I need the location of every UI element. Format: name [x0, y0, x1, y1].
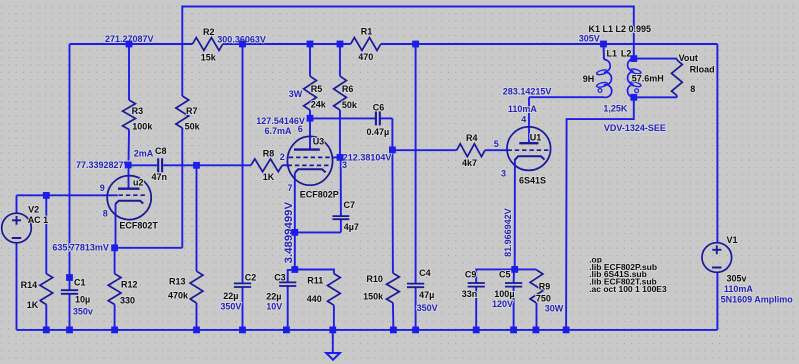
- wire R11 leads: [295, 270, 334, 330]
- svg-text:R14: R14: [21, 280, 38, 290]
- wire C2 branch: [242, 44, 244, 330]
- svg-text:2: 2: [280, 152, 285, 162]
- wire C7 node: [295, 157, 341, 232]
- label 3.4899499V (rotated): [283, 201, 295, 263]
- label 100k: [132, 121, 153, 131]
- svg-text:150k: 150k: [363, 292, 384, 302]
- svg-text:5: 5: [494, 139, 499, 149]
- node 305V rail-L1: [600, 41, 607, 48]
- svg-text:R12: R12: [121, 280, 138, 290]
- node rail-R3: [126, 41, 133, 48]
- directive .lib ECF802T: [589, 276, 657, 286]
- node L2 top: [630, 55, 637, 62]
- wire L1 top lead: [603, 44, 606, 60]
- label C3: [274, 272, 286, 282]
- resistor R6: [334, 76, 347, 110]
- svg-text:8: 8: [690, 84, 695, 94]
- svg-text:330: 330: [120, 295, 135, 305]
- node bus x513.6: [510, 327, 517, 334]
- svg-text:K1 L1 L2 0.995: K1 L1 L2 0.995: [589, 24, 652, 34]
- node rail-R5: [307, 41, 314, 48]
- svg-text:750: 750: [536, 294, 551, 304]
- wire C8 node: [129, 164, 197, 166]
- svg-text:47µ: 47µ: [419, 290, 434, 300]
- label 5N1609 Amplimo: [721, 295, 794, 305]
- label C1: [74, 278, 86, 288]
- wire C3 jog: [288, 270, 295, 330]
- wire R4 node: [392, 149, 507, 151]
- wire feedback top: [182, 7, 634, 248]
- svg-text:3: 3: [501, 169, 506, 179]
- capacitor C6: [376, 111, 380, 125]
- label 350V: [220, 302, 241, 312]
- label C2: [245, 272, 257, 282]
- label U1: [530, 133, 542, 143]
- svg-text:R7: R7: [186, 106, 198, 116]
- svg-text:6: 6: [298, 124, 303, 134]
- label 7: [288, 183, 293, 193]
- label u2: [133, 177, 144, 187]
- wire R10 leads: [392, 150, 393, 330]
- label 110mA: [508, 104, 538, 114]
- svg-text:C2: C2: [245, 272, 257, 282]
- svg-text:C8: C8: [155, 146, 167, 156]
- node input-R14: [43, 192, 50, 199]
- svg-text:30W: 30W: [545, 303, 564, 313]
- node bus x332.8: [329, 327, 336, 334]
- svg-text:C4: C4: [419, 268, 431, 278]
- label Rload: [690, 64, 715, 74]
- voltage source V1: [702, 243, 732, 273]
- wire R6 leads: [339, 44, 341, 157]
- node bus x286.4: [283, 327, 290, 334]
- svg-text:10V: 10V: [266, 302, 282, 312]
- node U3 cathode: [291, 229, 298, 236]
- label 3: [342, 160, 347, 170]
- svg-text:81.966942V: 81.966942V: [503, 208, 513, 257]
- svg-text:50k: 50k: [185, 122, 201, 132]
- label 9H: [583, 74, 595, 84]
- capacitor C9: [468, 283, 485, 287]
- node rail-C2: [239, 41, 246, 48]
- capacitor C4: [407, 284, 424, 288]
- svg-text:57.6mH: 57.6mH: [632, 73, 664, 83]
- svg-text:350V: 350V: [417, 303, 438, 313]
- svg-text:R9: R9: [539, 281, 551, 291]
- svg-text:5N1609 Amplimo: 5N1609 Amplimo: [721, 295, 794, 305]
- label 24k: [311, 100, 327, 110]
- wire U3 screen lead: [332, 156, 340, 158]
- label 22µ: [266, 291, 281, 301]
- svg-text:47n: 47n: [152, 172, 168, 182]
- svg-text:350v: 350v: [73, 306, 93, 316]
- svg-text:100µ: 100µ: [494, 289, 514, 299]
- svg-text:V1: V1: [727, 235, 738, 245]
- label ECF802P: [300, 190, 339, 200]
- wire u2 cathode: [115, 204, 183, 248]
- svg-text:1,25K: 1,25K: [603, 103, 628, 113]
- label 77.3392827V: [76, 160, 130, 170]
- svg-text:470: 470: [358, 52, 373, 62]
- svg-text:0.47µ: 0.47µ: [367, 127, 390, 137]
- label 81.966942V (rotated): [503, 208, 513, 257]
- node bus x415.6: [412, 327, 419, 334]
- svg-text:Vout: Vout: [679, 53, 698, 63]
- triode U1 (6S41S): [507, 127, 551, 171]
- svg-text:1K: 1K: [27, 300, 39, 310]
- wire u2 plate lead: [128, 165, 130, 188]
- wire R12 leads: [114, 248, 116, 330]
- label R13: [169, 277, 186, 287]
- label 2: [280, 152, 285, 162]
- label 470k: [168, 291, 189, 301]
- svg-text:50k: 50k: [342, 100, 358, 110]
- label 2mA: [134, 149, 154, 159]
- svg-text:305V: 305V: [579, 33, 600, 43]
- svg-text:7: 7: [288, 183, 293, 193]
- label 4k7: [462, 158, 477, 168]
- svg-text:R3: R3: [132, 106, 144, 116]
- svg-text:R6: R6: [342, 84, 354, 94]
- label C8: [155, 146, 167, 156]
- label R8: [263, 148, 275, 158]
- label 15k: [201, 52, 217, 62]
- svg-text:305v: 305v: [727, 274, 747, 284]
- svg-text:635.77813mV: 635.77813mV: [52, 243, 109, 253]
- label 0.47µ: [367, 127, 390, 137]
- wire C5 leads: [513, 269, 515, 330]
- label 4µ7: [344, 222, 359, 232]
- svg-text:C3: C3: [274, 272, 286, 282]
- label 47µ: [419, 290, 434, 300]
- node rail-C4: [412, 41, 419, 48]
- node u2 cathode: [111, 244, 118, 251]
- wire R14 leads: [45, 195, 47, 330]
- label 6S41S: [519, 176, 546, 186]
- resistor R9: [530, 270, 543, 303]
- svg-text:ECF802T: ECF802T: [119, 220, 158, 230]
- node C1 top: [66, 274, 73, 281]
- resistor R2: [193, 38, 223, 51]
- label 10V: [266, 302, 282, 312]
- wire R9 leads: [515, 269, 537, 330]
- node rail-R6: [337, 41, 344, 48]
- node C8-R13-R8: [193, 162, 200, 169]
- svg-text:9: 9: [100, 183, 105, 193]
- wire U3 cathode to C3 node: [294, 232, 296, 269]
- label 50k: [185, 122, 201, 132]
- wire R3 branch: [128, 44, 131, 165]
- label R9: [539, 281, 551, 291]
- svg-text:C7: C7: [344, 200, 356, 210]
- label C7: [344, 200, 356, 210]
- resistor R13: [190, 271, 203, 303]
- node bus x393.4: [390, 327, 397, 334]
- label 3W: [289, 89, 303, 99]
- svg-text:1K: 1K: [263, 172, 275, 182]
- voltage source V2: [2, 213, 32, 243]
- svg-text:R2: R2: [203, 27, 215, 37]
- svg-text:4µ7: 4µ7: [344, 222, 359, 232]
- wire V1 branch: [716, 44, 718, 330]
- svg-text:U1: U1: [530, 133, 542, 143]
- resistor R14: [40, 274, 53, 305]
- node U1 cathode: [511, 266, 518, 273]
- label 212.38104V: [343, 153, 392, 163]
- svg-text:8: 8: [103, 209, 108, 219]
- label 330: [120, 295, 135, 305]
- label C9: [465, 270, 477, 280]
- svg-text:3: 3: [342, 160, 347, 170]
- svg-text:R10: R10: [366, 274, 383, 284]
- wire C1 branch: [69, 44, 71, 330]
- wire U1 cathode lead: [514, 159, 516, 269]
- svg-text:212.38104V: 212.38104V: [343, 153, 392, 163]
- wire R8 node: [197, 164, 289, 166]
- inductor L2 (secondary): [628, 59, 642, 98]
- label 50k: [342, 100, 358, 110]
- label 1K: [263, 172, 275, 182]
- svg-text:120V: 120V: [492, 299, 513, 309]
- label R11: [307, 276, 323, 286]
- directive .lib ECF802P: [589, 262, 657, 272]
- label 9: [100, 183, 105, 193]
- label 100µ: [494, 289, 514, 299]
- svg-text:V2: V2: [28, 204, 39, 214]
- label VDV-1324-SEE: [604, 123, 666, 133]
- label 10µ: [75, 295, 90, 305]
- svg-text:22µ: 22µ: [223, 291, 238, 301]
- label R3: [132, 106, 144, 116]
- label 1,25K: [603, 103, 628, 113]
- wire ground bus: [17, 329, 718, 331]
- capacitor C3: [279, 282, 296, 286]
- resistor R3: [123, 100, 136, 130]
- label 127.54146V: [256, 116, 305, 126]
- wire secondary load: [634, 59, 677, 98]
- svg-text:u2: u2: [133, 177, 144, 187]
- label R4: [466, 133, 478, 143]
- resistor R12: [108, 274, 121, 305]
- svg-text:4: 4: [521, 115, 526, 125]
- wire U3 cathode lead: [294, 173, 296, 232]
- label C6: [373, 103, 385, 113]
- resistor R10: [387, 273, 400, 303]
- phase dot L1: [598, 89, 602, 93]
- label L1: [607, 49, 618, 59]
- wire C9 node: [476, 269, 515, 330]
- svg-text:77.3392827V: 77.3392827V: [76, 160, 130, 170]
- label 635.77813mV: [52, 243, 109, 253]
- label 22µ: [223, 291, 238, 301]
- label AC 1: [28, 215, 49, 225]
- svg-text:C6: C6: [373, 103, 385, 113]
- label V2: [28, 204, 39, 214]
- label 350v: [73, 306, 93, 316]
- label 150k: [363, 292, 384, 302]
- svg-text:3W: 3W: [289, 89, 303, 99]
- label V1: [727, 235, 738, 245]
- phase dot L2: [635, 89, 639, 93]
- label 8: [103, 209, 108, 219]
- label 6.7mA: [265, 126, 293, 136]
- label L2: [621, 49, 632, 59]
- capacitor C7: [333, 216, 350, 219]
- svg-text:15k: 15k: [201, 52, 217, 62]
- label R12: [121, 280, 138, 290]
- wire C6 node: [310, 118, 392, 149]
- capacitor C5: [505, 283, 522, 287]
- svg-text:22µ: 22µ: [266, 291, 281, 301]
- svg-text:100k: 100k: [132, 121, 153, 131]
- node bus x566.1: [563, 327, 570, 334]
- svg-text:6S41S: 6S41S: [519, 176, 546, 186]
- label Vout: [679, 53, 698, 63]
- label 33n: [462, 289, 478, 299]
- resistor R11: [328, 274, 341, 306]
- svg-text:R13: R13: [169, 277, 186, 287]
- label C4: [419, 268, 431, 278]
- wire U3 plate lead: [309, 118, 311, 149]
- label 6: [298, 124, 303, 134]
- node u2 plate: [125, 162, 132, 169]
- label 110mA: [724, 284, 754, 294]
- label R7: [186, 106, 198, 116]
- resistor R8: [251, 159, 282, 172]
- label K1 L1 L2 0.995: [589, 24, 652, 34]
- svg-text:33n: 33n: [462, 289, 478, 299]
- svg-text:6.7mA: 6.7mA: [265, 126, 293, 136]
- capacitor C2: [234, 283, 251, 287]
- pentode U3 (ECF802P): [287, 136, 332, 185]
- svg-text:Rload: Rload: [690, 64, 715, 74]
- wire V2 branch: [16, 195, 18, 330]
- node bus x535.9: [533, 327, 540, 334]
- label 440: [307, 294, 322, 304]
- label R2: [203, 27, 215, 37]
- svg-text:C9: C9: [465, 270, 477, 280]
- svg-text:R5: R5: [311, 84, 323, 94]
- svg-text:110mA: 110mA: [724, 284, 754, 294]
- svg-text:470k: 470k: [168, 291, 189, 301]
- label R5: [311, 84, 323, 94]
- resistor R5: [304, 76, 317, 110]
- label 47n: [152, 172, 168, 182]
- triode u2 (ECF802T): [107, 176, 151, 220]
- label 350V: [417, 303, 438, 313]
- wire U1 plate node: [529, 97, 604, 143]
- svg-text:.ac oct 100 1 100E3: .ac oct 100 1 100E3: [589, 284, 667, 294]
- label 4: [521, 115, 526, 125]
- label 3: [501, 169, 506, 179]
- svg-text:C1: C1: [74, 278, 86, 288]
- label 283.14215V: [503, 86, 552, 96]
- svg-text:R1: R1: [361, 26, 373, 36]
- node C3-R11: [291, 266, 298, 273]
- svg-text:24k: 24k: [311, 100, 327, 110]
- label R10: [366, 274, 383, 284]
- label 305v: [727, 274, 747, 284]
- inductor L1 (primary): [596, 60, 612, 98]
- node U3 plate: [307, 115, 314, 122]
- svg-text:ECF802P: ECF802P: [300, 190, 339, 200]
- node U3 screen: [337, 154, 344, 161]
- svg-text:L2: L2: [621, 49, 632, 59]
- svg-text:R8: R8: [263, 148, 275, 158]
- node bus x242.5: [239, 327, 246, 334]
- wire B+ rail: [70, 43, 718, 45]
- resistor Rload: [672, 60, 683, 96]
- wire R5 leads: [309, 44, 311, 118]
- svg-text:283.14215V: 283.14215V: [503, 86, 552, 96]
- svg-text:U3: U3: [313, 136, 325, 146]
- wire input to grid: [17, 194, 118, 196]
- svg-text:AC 1: AC 1: [28, 215, 49, 225]
- svg-text:L1: L1: [607, 49, 618, 59]
- node L2 bottom: [630, 94, 637, 101]
- svg-text:VDV-1324-SEE: VDV-1324-SEE: [604, 123, 666, 133]
- label U3: [313, 136, 325, 146]
- node bus x114.6: [111, 327, 118, 334]
- node bus x196.5: [193, 327, 200, 334]
- svg-text:2mA: 2mA: [134, 149, 154, 159]
- label R6: [342, 84, 354, 94]
- svg-text:110mA: 110mA: [508, 104, 538, 114]
- label 120V: [492, 299, 513, 309]
- label R14: [21, 280, 38, 290]
- wire R13 leads: [196, 165, 198, 330]
- svg-text:C5: C5: [499, 270, 511, 280]
- wire C4 branch: [415, 44, 417, 330]
- label 1K: [27, 300, 39, 310]
- label 30W: [545, 303, 564, 313]
- wire secondary ground return: [566, 97, 634, 330]
- label 750: [536, 294, 551, 304]
- label 8: [690, 84, 695, 94]
- svg-text:4k7: 4k7: [462, 158, 477, 168]
- svg-text:9H: 9H: [583, 74, 595, 84]
- label 300.36063V: [217, 34, 266, 44]
- label ECF802T: [119, 220, 158, 230]
- capacitor C1: [61, 290, 78, 294]
- resistor R7: [176, 96, 189, 128]
- label 305V: [579, 33, 600, 43]
- directive .op: [589, 255, 602, 265]
- node bus x69.5: [66, 327, 73, 334]
- resistor R4: [457, 144, 485, 157]
- label C5: [499, 270, 511, 280]
- label 470: [358, 52, 373, 62]
- node bus x476.2: [473, 327, 480, 334]
- label 57.6mH: [632, 73, 664, 83]
- node bus x46.3: [43, 327, 50, 334]
- directive .lib 6S41S.: [589, 269, 647, 279]
- node R4-C6-R10: [389, 147, 396, 154]
- label 5: [494, 139, 499, 149]
- svg-text:R11: R11: [307, 276, 323, 286]
- ground: [326, 330, 340, 360]
- svg-text:440: 440: [307, 294, 322, 304]
- label R1: [361, 26, 373, 36]
- label 271.27087V: [105, 34, 154, 44]
- svg-text:10µ: 10µ: [75, 295, 90, 305]
- svg-text:350V: 350V: [220, 302, 241, 312]
- svg-text:R4: R4: [466, 133, 478, 143]
- capacitor C8: [158, 158, 162, 172]
- directive .ac ct 100: [589, 284, 667, 294]
- resistor R1: [351, 38, 381, 51]
